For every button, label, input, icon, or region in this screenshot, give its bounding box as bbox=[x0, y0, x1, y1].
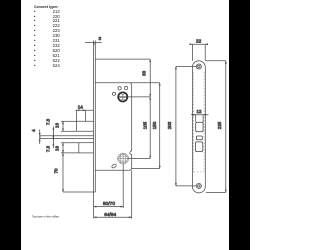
right black bar bbox=[229, 0, 250, 250]
svg-text:16: 16 bbox=[55, 123, 60, 129]
auxiliary 4mm element bbox=[40, 136, 94, 139]
dim 7.3 upper bbox=[52, 127, 54, 141]
dim 16 latch bbox=[62, 121, 64, 131]
left black bar bbox=[0, 0, 21, 250]
follower ext line bbox=[129, 158, 151, 160]
ext verticals to bottom dims bbox=[93, 192, 95, 219]
dim 16 deadbolt + dim 70 stacked bbox=[62, 143, 64, 192]
dim 64/84 bbox=[94, 216, 132, 218]
svg-text:203: 203 bbox=[167, 121, 172, 129]
faceplate front view (stadium) bbox=[192, 61, 205, 193]
deadbolt cutout front bbox=[195, 142, 202, 152]
svg-text:64/84: 64/84 bbox=[104, 212, 116, 218]
dim line 150 vertical bbox=[159, 83, 161, 169]
svg-text:7.3: 7.3 bbox=[46, 118, 51, 125]
ext lines deadbolt bbox=[61, 142, 79, 144]
small slot front bbox=[196, 136, 202, 140]
tilted oval bbox=[111, 163, 117, 168]
svg-text:50/70: 50/70 bbox=[103, 201, 115, 207]
svg-text:7.3: 7.3 bbox=[45, 145, 50, 152]
dim 4 bbox=[39, 130, 41, 145]
dim line 63/105 vertical bbox=[149, 59, 151, 159]
dim 22 bbox=[190, 43, 208, 61]
svg-text:14: 14 bbox=[78, 105, 84, 110]
latch cutout front bbox=[196, 122, 203, 132]
ext line cylinder center bbox=[128, 96, 151, 98]
svg-text:225: 225 bbox=[217, 121, 222, 129]
ext lines latch bbox=[61, 120, 77, 122]
dim 12 bbox=[191, 114, 209, 122]
svg-text:70: 70 bbox=[53, 168, 58, 174]
dim 203 bbox=[175, 67, 196, 186]
svg-text:4: 4 bbox=[31, 129, 36, 132]
type list text block bbox=[34, 5, 60, 68]
svg-text:12: 12 bbox=[196, 109, 202, 114]
hidden case dashed lines bbox=[194, 72, 205, 172]
cylinder profile inside bbox=[119, 94, 126, 100]
small hole left of cylinder bbox=[112, 92, 115, 95]
cylinder C (thick ring) bbox=[118, 92, 127, 101]
ext line inner box top to 150 dim bbox=[131, 82, 160, 84]
ext line inner box bottom bbox=[132, 168, 160, 170]
latch bolt bbox=[77, 121, 94, 131]
dim 7.3 lower bbox=[52, 134, 54, 149]
bottom screw hole bbox=[196, 183, 201, 188]
svg-text:3: 3 bbox=[98, 36, 101, 42]
footnote bbox=[32, 215, 60, 218]
follower (hatched circle) bbox=[118, 153, 129, 164]
inner box bbox=[95, 83, 131, 171]
small hole top-right of cylinder bbox=[124, 86, 127, 89]
deadbolt bbox=[79, 143, 94, 153]
svg-text:105: 105 bbox=[142, 121, 147, 129]
dim 3 (faceplate thickness) bbox=[85, 40, 102, 44]
dim 50/70 bbox=[94, 206, 124, 208]
faceplate bottom ext bbox=[63, 191, 94, 193]
svg-text:63: 63 bbox=[141, 70, 146, 76]
svg-text:16: 16 bbox=[55, 146, 60, 152]
dim 225 bbox=[206, 61, 227, 193]
svg-text:22: 22 bbox=[196, 38, 202, 43]
case top line bbox=[95, 58, 150, 60]
small hole top-left of cylinder bbox=[118, 87, 121, 90]
faceplate side view bbox=[94, 44, 96, 192]
svg-text:150: 150 bbox=[152, 121, 157, 129]
dim 14 bbox=[76, 109, 94, 121]
top screw hole bbox=[196, 64, 201, 69]
